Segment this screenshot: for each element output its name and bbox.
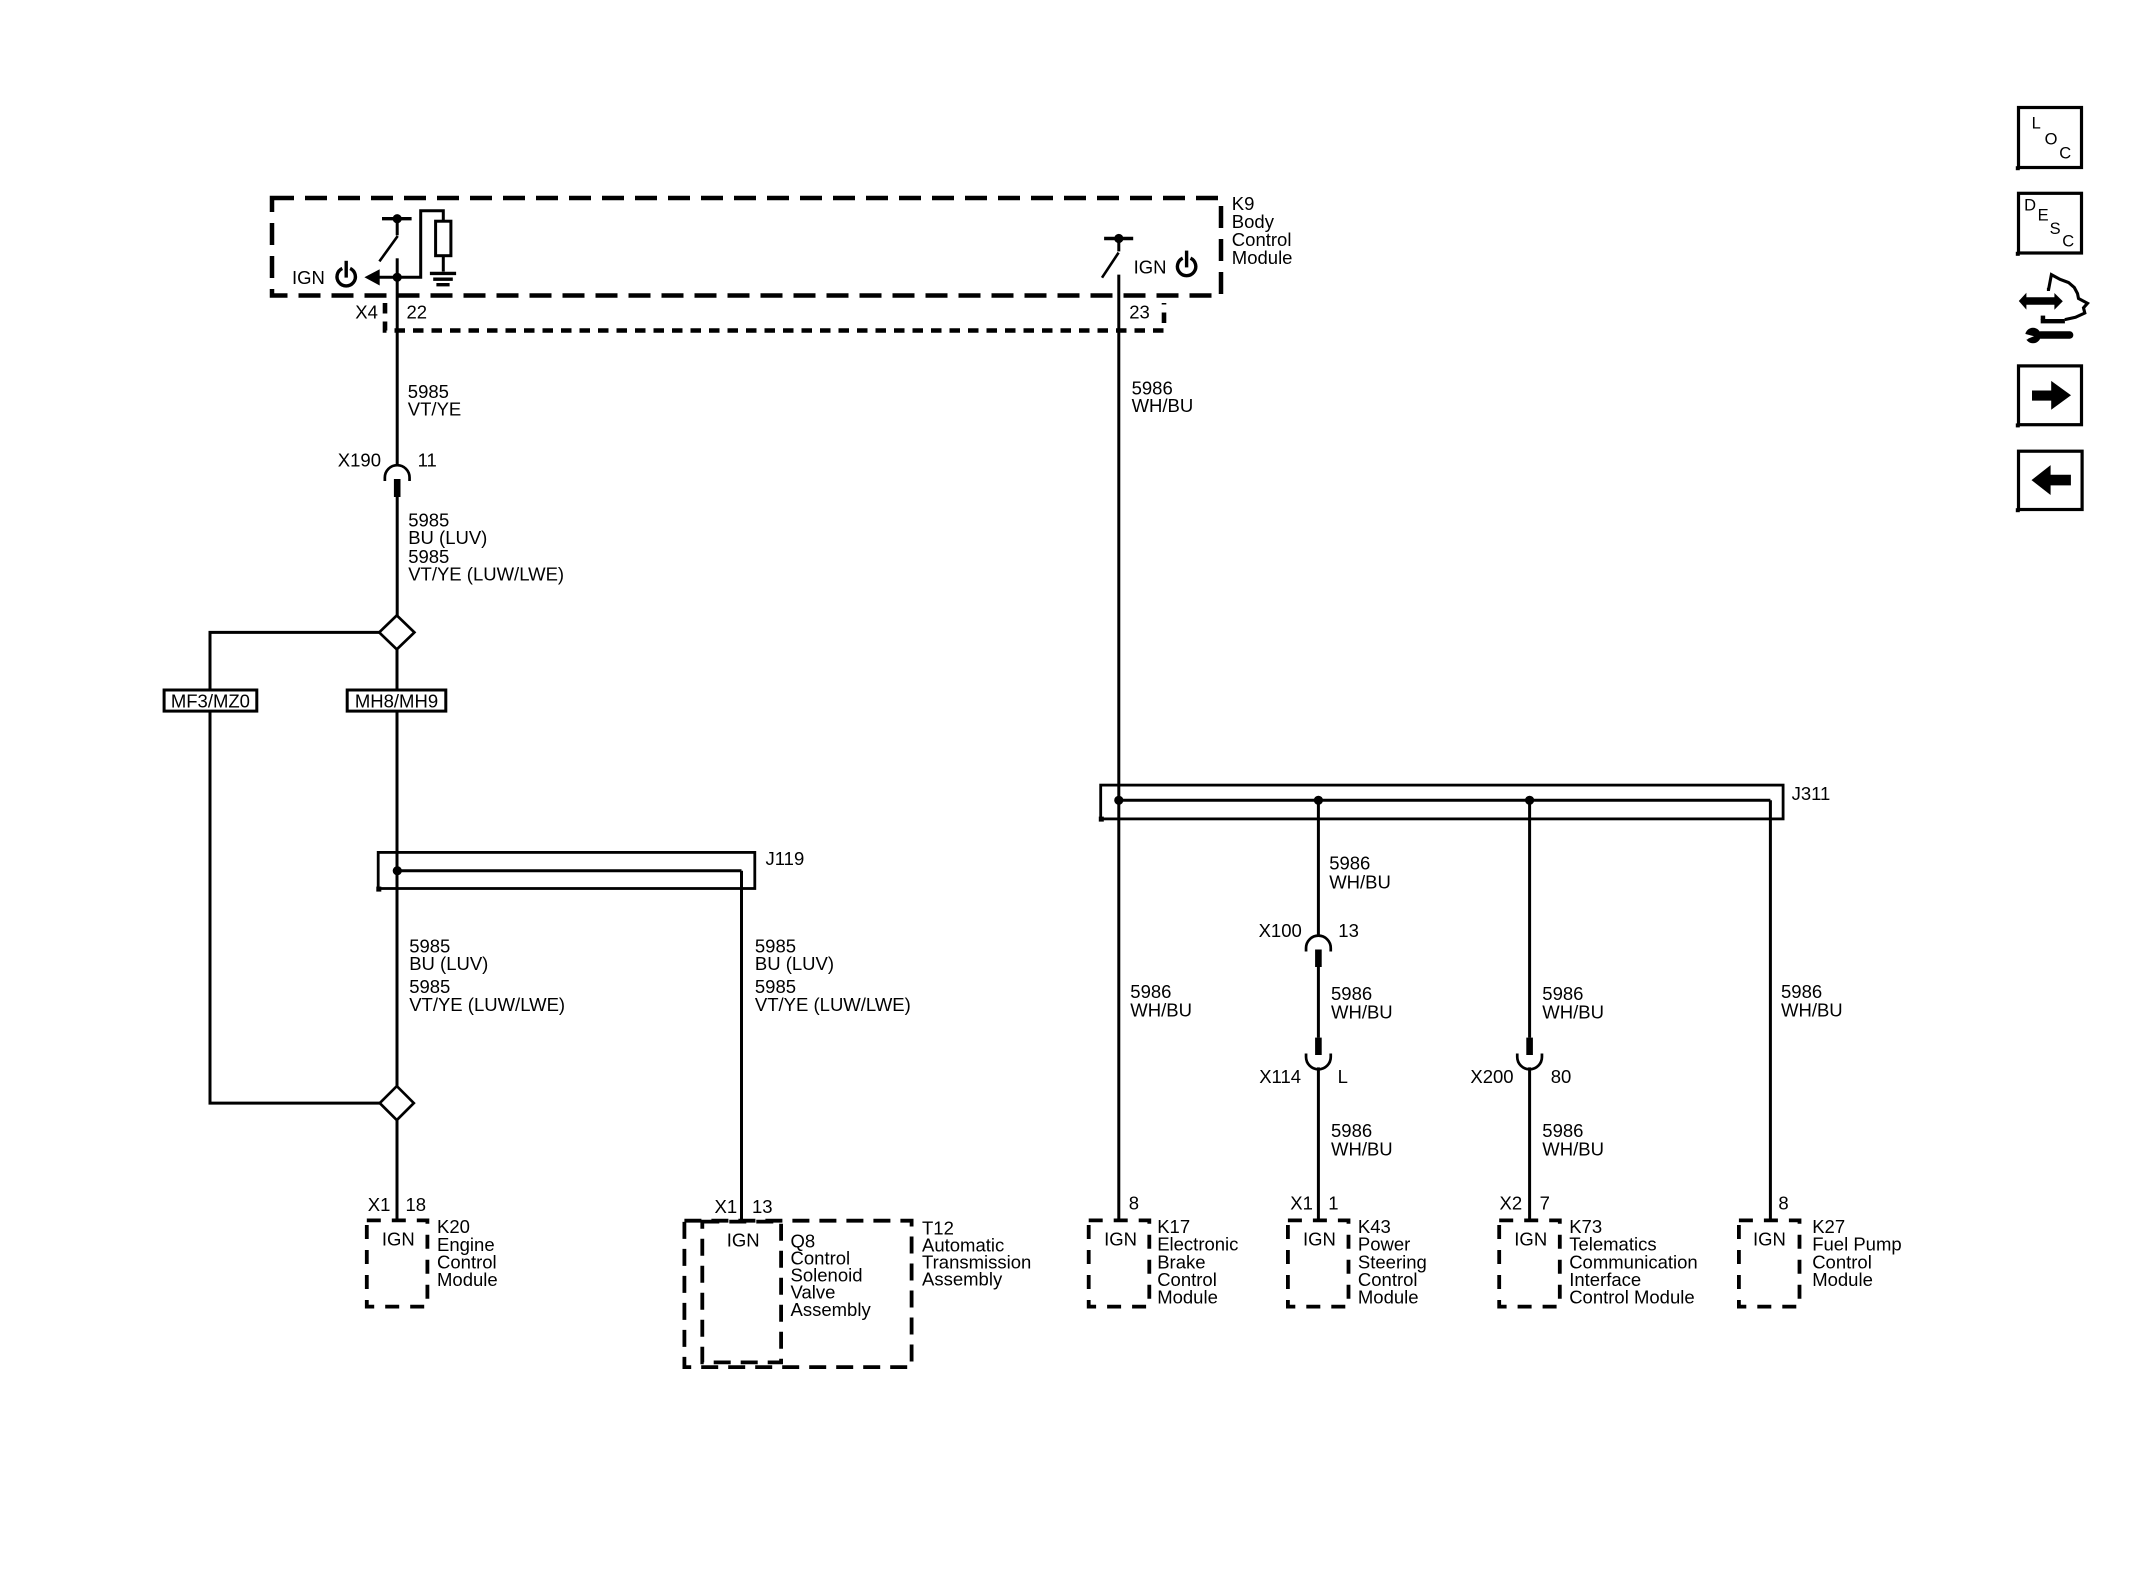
wire labels below J119 left	[409, 936, 565, 1015]
switch S1 bottom stub	[396, 258, 399, 277]
wire labels 5985 BU (LUV) / 5985 VT/YE (LUW/LWE)	[408, 509, 564, 584]
junction dot J311 wire1	[1114, 796, 1123, 805]
K9 label	[1232, 193, 1293, 268]
wire X200 to K73	[1528, 1067, 1531, 1221]
svg-text:WH/BU: WH/BU	[1542, 1139, 1604, 1160]
svg-text:Assembly: Assembly	[922, 1268, 1003, 1289]
splice pack J119 outer box	[378, 852, 755, 888]
icon diagnostic double arrow	[2019, 293, 2063, 310]
wire label 5986 WH/BU below X114	[1331, 1120, 1393, 1160]
wire label 5986 WH/BU col1	[1130, 981, 1192, 1021]
splice pack J119 bus bar	[397, 869, 741, 872]
splice diamond 1	[379, 615, 414, 649]
wire left branch vertical to diamond 2	[210, 711, 380, 1103]
svg-text:WH/BU: WH/BU	[1130, 1000, 1192, 1021]
wire diamond1 down through MH8/MH9	[396, 649, 399, 870]
svg-text:IGN: IGN	[1303, 1228, 1336, 1249]
wire X100 to X114	[1317, 967, 1320, 1038]
switch S2 blade	[1102, 253, 1119, 278]
connector X190 symbol	[385, 465, 410, 481]
T12 label	[922, 1218, 1031, 1290]
svg-text:Assembly: Assembly	[791, 1299, 872, 1320]
switch S1 top stub	[396, 221, 399, 235]
svg-text:8: 8	[1778, 1193, 1788, 1214]
K20 module label	[437, 1216, 498, 1290]
svg-text:C: C	[2059, 144, 2071, 162]
wire J311 to K17	[1117, 800, 1120, 1221]
svg-text:Module: Module	[1232, 247, 1293, 268]
wire J311 to X100	[1317, 800, 1320, 936]
assembly T12 outer dashed box	[684, 1221, 911, 1367]
splice pack J311 outer box	[1101, 785, 1783, 819]
svg-text:13: 13	[752, 1196, 773, 1217]
switch S1 contact line	[382, 217, 412, 220]
J311 corner tick	[1099, 817, 1104, 822]
svg-text:VT/YE (LUW/LWE): VT/YE (LUW/LWE)	[408, 564, 564, 585]
junction dot J311 wire3	[1525, 796, 1534, 805]
icon box arrow left	[2019, 451, 2083, 509]
svg-text:IGN: IGN	[292, 267, 325, 288]
svg-text:O: O	[2045, 131, 2058, 149]
splice pack J311 bus bar	[1119, 799, 1771, 802]
connector X200 symbol	[1526, 1038, 1533, 1055]
K73 module label	[1569, 1216, 1698, 1308]
junction dot pin22	[393, 273, 402, 282]
wire label 5985 VT/YE	[408, 381, 461, 420]
svg-text:J311: J311	[1792, 783, 1831, 804]
svg-text:80: 80	[1551, 1066, 1572, 1087]
svg-text:WH/BU: WH/BU	[1781, 1000, 1843, 1021]
svg-text:Control Module: Control Module	[1569, 1287, 1694, 1308]
svg-text:22: 22	[407, 301, 428, 322]
wire label 5986 WH/BU col4	[1781, 981, 1843, 1021]
wire diamond2 to K20	[396, 1120, 399, 1221]
switch S1 contact dot	[393, 214, 402, 223]
svg-text:VT/YE (LUW/LWE): VT/YE (LUW/LWE)	[409, 994, 565, 1015]
wire junction to arrow and resistor branch	[378, 211, 443, 278]
wire labels below J119 right	[755, 936, 911, 1015]
module K20 dashed box	[367, 1220, 428, 1306]
svg-text:X190: X190	[338, 450, 381, 471]
power symbol right	[1177, 251, 1195, 276]
junction dot J311 wire2	[1314, 796, 1323, 805]
svg-text:8: 8	[1129, 1193, 1139, 1214]
svg-text:L: L	[1338, 1066, 1348, 1087]
Q8 label	[791, 1231, 872, 1321]
wire label 5986 WH/BU below X200	[1542, 1120, 1604, 1160]
wire label 5986 WH/BU above X200	[1542, 983, 1604, 1023]
svg-text:VT/YE (LUW/LWE): VT/YE (LUW/LWE)	[755, 994, 911, 1015]
svg-text:WH/BU: WH/BU	[1331, 1001, 1393, 1022]
icon box LOC	[2019, 108, 2082, 168]
svg-text:IGN: IGN	[1134, 257, 1167, 278]
component Q8 inner dashed box	[702, 1222, 781, 1363]
connector X100 symbol	[1306, 936, 1331, 952]
switch S1 blade	[379, 236, 397, 261]
wire resistor to ground	[442, 256, 445, 272]
resistor R1	[436, 221, 451, 256]
wire 5985 from pin 22 down to X190	[396, 277, 399, 465]
svg-text:WH/BU: WH/BU	[1331, 1139, 1393, 1160]
svg-text:11: 11	[418, 450, 437, 471]
svg-text:IGN: IGN	[1514, 1228, 1547, 1249]
module K27 dashed box	[1739, 1220, 1800, 1306]
wire J311 to X200	[1528, 800, 1531, 1037]
svg-text:BU (LUV): BU (LUV)	[408, 527, 487, 548]
svg-text:X114: X114	[1259, 1066, 1301, 1087]
K17 module label	[1157, 1216, 1238, 1308]
wire J119 right branch down to Q8	[740, 871, 743, 1222]
svg-text:C: C	[2062, 233, 2074, 251]
svg-text:BU (LUV): BU (LUV)	[755, 953, 834, 974]
arrow to IGN	[364, 269, 379, 285]
svg-text:Module: Module	[1358, 1287, 1419, 1308]
svg-text:Module: Module	[1812, 1269, 1873, 1290]
icon wrench	[2025, 328, 2041, 344]
wire label 5986 WH/BU above X100	[1329, 853, 1391, 893]
svg-text:X200: X200	[1470, 1066, 1513, 1087]
module K9 Body Control Module dashed box	[272, 198, 1221, 296]
svg-text:X1: X1	[715, 1196, 738, 1217]
svg-text:X2: X2	[1500, 1193, 1523, 1214]
svg-text:X100: X100	[1259, 920, 1302, 941]
power symbol left	[337, 261, 355, 286]
J119 corner tick	[376, 887, 381, 892]
svg-text:WH/BU: WH/BU	[1132, 395, 1194, 416]
svg-text:VT/YE: VT/YE	[408, 399, 461, 420]
switch S2 contact dot	[1114, 234, 1123, 243]
connector X4 strip dotted outline	[385, 303, 1164, 331]
svg-text:Module: Module	[1157, 1287, 1218, 1308]
icon box arrow right	[2019, 366, 2082, 425]
module K17 dashed box	[1089, 1220, 1150, 1306]
junction dot J119 left	[393, 866, 402, 875]
svg-text:WH/BU: WH/BU	[1542, 1001, 1604, 1022]
wire X114 to K43	[1317, 1067, 1320, 1221]
icon vehicle outline	[2047, 275, 2088, 320]
svg-text:1: 1	[1328, 1193, 1338, 1214]
svg-text:MF3/MZ0: MF3/MZ0	[171, 690, 250, 711]
svg-text:D: D	[2024, 196, 2036, 214]
wire label 5986 WH/BU mid col2	[1331, 983, 1393, 1023]
connector X114 symbol	[1315, 1038, 1322, 1055]
wire 5986 from pin 23 down to J311	[1117, 275, 1120, 801]
switch S2 top stub	[1117, 241, 1120, 251]
module K73 dashed box	[1499, 1220, 1560, 1306]
svg-text:BU (LUV): BU (LUV)	[409, 953, 488, 974]
svg-text:X1: X1	[1290, 1193, 1313, 1214]
svg-text:IGN: IGN	[727, 1230, 760, 1251]
K27 module label	[1812, 1216, 1901, 1290]
svg-text:23: 23	[1129, 301, 1150, 322]
svg-text:Module: Module	[437, 1269, 498, 1290]
wire J311 to K27	[1769, 800, 1772, 1221]
svg-text:7: 7	[1540, 1193, 1550, 1214]
svg-text:X1: X1	[368, 1194, 391, 1215]
svg-text:IGN: IGN	[1753, 1228, 1786, 1249]
svg-text:S: S	[2050, 220, 2061, 238]
svg-text:WH/BU: WH/BU	[1329, 872, 1391, 893]
svg-text:13: 13	[1338, 920, 1359, 941]
svg-text:X4: X4	[355, 301, 378, 322]
svg-text:E: E	[2038, 207, 2049, 225]
wire X190 to splice diamond	[396, 497, 399, 616]
K43 module label	[1358, 1216, 1427, 1308]
wire J119 left down to diamond 2	[396, 871, 399, 1087]
svg-text:18: 18	[406, 1194, 427, 1215]
svg-text:MH8/MH9: MH8/MH9	[355, 690, 438, 711]
wire label 5986 WH/BU top	[1132, 377, 1194, 416]
icon box DESC	[2019, 193, 2082, 253]
svg-text:IGN: IGN	[382, 1228, 415, 1249]
wire left branch horizontal	[210, 632, 379, 690]
svg-text:J119: J119	[766, 848, 805, 869]
switch S2 contact line	[1104, 237, 1133, 240]
svg-text:IGN: IGN	[1104, 1228, 1137, 1249]
module K43 dashed box	[1288, 1220, 1349, 1306]
svg-text:L: L	[2032, 115, 2041, 133]
option box MF3/MZ0	[164, 690, 257, 711]
splice diamond 2	[380, 1086, 414, 1120]
option box MH8/MH9	[347, 690, 446, 711]
ground symbol	[430, 273, 456, 284]
